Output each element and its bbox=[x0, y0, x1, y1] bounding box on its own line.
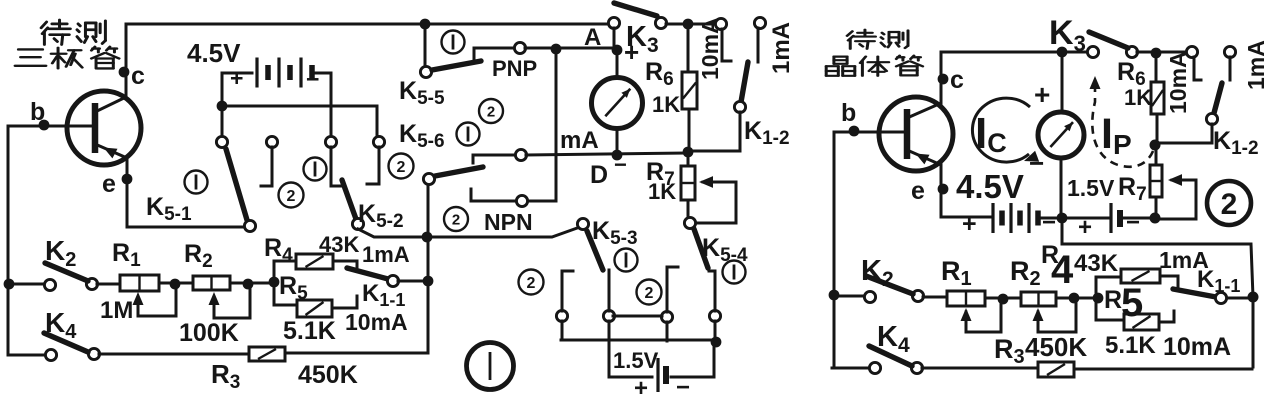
svg-text:1M: 1M bbox=[100, 297, 133, 324]
svg-text:−: − bbox=[1029, 148, 1044, 178]
svg-text:450K: 450K bbox=[1025, 332, 1087, 362]
svg-text:100K: 100K bbox=[179, 319, 239, 347]
svg-text:10mA: 10mA bbox=[697, 17, 723, 80]
svg-text:1.5V: 1.5V bbox=[1067, 175, 1115, 201]
svg-text:−: − bbox=[1042, 209, 1056, 236]
svg-text:−: − bbox=[1126, 209, 1140, 236]
svg-text:1.5V: 1.5V bbox=[613, 348, 659, 373]
svg-text:2: 2 bbox=[1221, 188, 1238, 221]
svg-text:e: e bbox=[911, 177, 925, 205]
svg-text:e: e bbox=[102, 170, 116, 198]
svg-text:+: + bbox=[962, 210, 977, 238]
svg-text:−: − bbox=[306, 66, 319, 92]
svg-text:4: 4 bbox=[1051, 248, 1074, 292]
svg-text:2: 2 bbox=[287, 188, 296, 205]
svg-text:c: c bbox=[950, 66, 964, 94]
svg-text:b: b bbox=[841, 99, 856, 127]
svg-text:43K: 43K bbox=[1074, 250, 1119, 277]
svg-text:450K: 450K bbox=[298, 361, 358, 389]
svg-text:2: 2 bbox=[527, 275, 536, 292]
svg-text:1mA: 1mA bbox=[362, 242, 410, 267]
svg-text:4.5V: 4.5V bbox=[187, 38, 241, 68]
svg-text:2: 2 bbox=[487, 103, 495, 120]
svg-text:10mA: 10mA bbox=[1163, 333, 1231, 361]
svg-text:5.1K: 5.1K bbox=[283, 317, 336, 345]
svg-text:1K: 1K bbox=[652, 92, 680, 117]
svg-text:+: + bbox=[1078, 214, 1092, 241]
svg-text:D: D bbox=[590, 161, 608, 189]
svg-text:−: − bbox=[614, 152, 627, 177]
svg-text:1K: 1K bbox=[648, 179, 676, 204]
svg-text:c: c bbox=[131, 62, 145, 90]
svg-text:mA: mA bbox=[560, 127, 599, 154]
svg-text:NPN: NPN bbox=[484, 209, 533, 235]
svg-text:2: 2 bbox=[645, 285, 654, 302]
svg-text:5.1K: 5.1K bbox=[1105, 332, 1156, 359]
svg-text:10mA: 10mA bbox=[1165, 51, 1191, 114]
svg-text:5: 5 bbox=[1121, 281, 1143, 325]
svg-text:−: − bbox=[676, 374, 690, 401]
svg-text:R: R bbox=[1104, 286, 1122, 314]
svg-text:1mA: 1mA bbox=[768, 22, 795, 74]
svg-text:A: A bbox=[584, 24, 601, 51]
svg-text:+: + bbox=[230, 65, 243, 91]
svg-text:+: + bbox=[634, 375, 648, 402]
svg-text:b: b bbox=[30, 98, 45, 126]
svg-text:2: 2 bbox=[452, 211, 460, 228]
svg-text:43K: 43K bbox=[319, 232, 359, 257]
svg-text:1K: 1K bbox=[1124, 85, 1152, 110]
svg-text:10mA: 10mA bbox=[345, 309, 408, 335]
svg-text:1mA: 1mA bbox=[1243, 40, 1269, 90]
svg-text:PNP: PNP bbox=[492, 56, 537, 81]
svg-text:2: 2 bbox=[397, 159, 406, 176]
svg-text:+: + bbox=[1034, 79, 1050, 110]
svg-text:4.5V: 4.5V bbox=[956, 168, 1024, 205]
